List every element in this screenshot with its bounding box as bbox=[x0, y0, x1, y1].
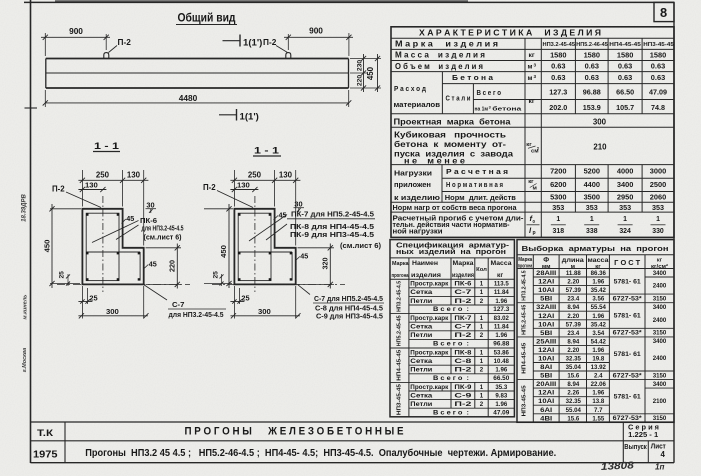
svg-text:2.20: 2.20 bbox=[567, 347, 579, 354]
svg-text:НП5.2-45-45: НП5.2-45-45 bbox=[522, 304, 528, 335]
svg-text:13808: 13808 bbox=[601, 460, 635, 473]
svg-text:353: 353 bbox=[652, 203, 664, 212]
svg-text:П-2: П-2 bbox=[454, 367, 472, 374]
dimension 25 bottom (left section) bbox=[78, 286, 97, 319]
svg-text:ных изделий на прогон: ных изделий на прогон bbox=[396, 247, 506, 256]
svg-text:1.96: 1.96 bbox=[592, 313, 604, 320]
section mark 1(1') top bbox=[223, 35, 263, 49]
svg-text:В с е г о :: В с е г о : bbox=[433, 341, 469, 348]
svg-text:М а р к а и з д е л и я: М а р к а и з д е л и я bbox=[395, 40, 498, 49]
svg-text:10АI: 10АI bbox=[538, 398, 554, 405]
rebar selection group НП3.2-45-4.5 bbox=[522, 270, 667, 303]
svg-text:П-2: П-2 bbox=[454, 298, 472, 305]
row Масса изделия bbox=[395, 51, 666, 60]
svg-text:3500: 3500 bbox=[584, 193, 600, 202]
svg-text:900: 900 bbox=[69, 26, 83, 36]
svg-text:С-7 для НП5.2-45-4.5: С-7 для НП5.2-45-4.5 bbox=[314, 296, 383, 303]
svg-text:Норм длит. действ: Норм длит. действ bbox=[445, 193, 516, 202]
svg-text:86.36: 86.36 bbox=[591, 270, 607, 277]
svg-text:32АIII: 32АIII bbox=[536, 304, 556, 311]
label П-2 left with leader bbox=[109, 37, 132, 53]
svg-text:1975: 1975 bbox=[33, 450, 58, 461]
svg-text:25: 25 bbox=[213, 271, 220, 279]
svg-text:на 1м: на 1м bbox=[475, 106, 489, 112]
row на 1м3 бетона bbox=[475, 103, 666, 113]
svg-text:3000: 3000 bbox=[650, 167, 666, 176]
svg-text:96.88: 96.88 bbox=[493, 341, 509, 348]
svg-text:для НП3.2-45-4.5: для НП3.2-45-4.5 bbox=[142, 226, 184, 233]
svg-text:74.8: 74.8 bbox=[651, 103, 665, 112]
svg-text:Р а с х о д: Р а с х о д bbox=[394, 84, 426, 93]
row Расчетный прогиб bbox=[393, 214, 666, 236]
svg-text:1.96: 1.96 bbox=[592, 347, 604, 354]
svg-text:8.94: 8.94 bbox=[567, 304, 579, 311]
svg-text:С-7: С-7 bbox=[454, 324, 472, 331]
series box Выпуск / Лист 4 bbox=[624, 444, 666, 459]
svg-text:3400: 3400 bbox=[617, 180, 633, 189]
svg-text:3.56: 3.56 bbox=[592, 296, 604, 303]
svg-text:35.04: 35.04 bbox=[566, 364, 582, 371]
svg-text:Марка: Марка bbox=[518, 257, 533, 263]
svg-text:кг: кг bbox=[595, 264, 601, 270]
rebar selection table grid bbox=[517, 240, 674, 423]
svg-text:3400: 3400 bbox=[653, 381, 667, 388]
svg-text:6727-53*: 6727-53* bbox=[613, 296, 643, 303]
svg-text:47.09: 47.09 bbox=[649, 88, 667, 97]
centerline (left section) bbox=[102, 196, 104, 292]
svg-text:Петли: Петли bbox=[410, 367, 432, 374]
svg-text:В с е г о :: В с е г о : bbox=[433, 306, 469, 313]
svg-text:г.Москва: г.Москва bbox=[22, 348, 28, 373]
svg-text:20АIII: 20АIII bbox=[536, 381, 556, 388]
svg-text:1.96: 1.96 bbox=[495, 332, 507, 339]
svg-text:С-9: С-9 bbox=[454, 392, 472, 399]
svg-text:12АI: 12АI bbox=[538, 390, 554, 397]
svg-text:25: 25 bbox=[59, 271, 66, 279]
svg-text:450: 450 bbox=[219, 245, 228, 258]
svg-text:1580: 1580 bbox=[584, 51, 600, 60]
svg-text:2060: 2060 bbox=[650, 193, 666, 202]
dimension 130 (left section) bbox=[78, 181, 106, 193]
row Норм нагр от собств веса прогона bbox=[393, 203, 665, 212]
svg-text:Х А Р А К Т Е Р И С Т И К А: Х А Р А К Т Е Р И С Т И К А И З Д Е Л И … bbox=[419, 28, 601, 37]
svg-text:Р а с ч е т н а я: Р а с ч е т н а я bbox=[446, 167, 508, 176]
svg-text:10АI: 10АI bbox=[538, 287, 554, 294]
svg-text:32.35: 32.35 bbox=[566, 356, 582, 363]
dimension 250/130 top (left section) bbox=[78, 170, 148, 246]
svg-text:Норм нагр от собств веса прого: Норм нагр от собств веса прогона bbox=[393, 203, 518, 212]
svg-text:250: 250 bbox=[96, 171, 110, 180]
svg-text:25: 25 bbox=[89, 293, 97, 302]
svg-text:П-2: П-2 bbox=[52, 184, 65, 193]
title block year 1975 bbox=[33, 450, 58, 461]
svg-text:Простр.карк: Простр.карк bbox=[410, 349, 449, 356]
title block grid bbox=[31, 422, 675, 463]
svg-text:кг: кг bbox=[528, 179, 534, 185]
svg-text:Простр.карк: Простр.карк bbox=[410, 315, 449, 322]
rebar selection table header bbox=[518, 244, 669, 270]
label ПК-7/8/9 block (right section) bbox=[249, 211, 381, 250]
svg-text:83.02: 83.02 bbox=[494, 315, 510, 322]
svg-text:Сетка: Сетка bbox=[410, 289, 433, 296]
label 45 lower (right section) bbox=[296, 251, 309, 260]
svg-text:бетона к моменту от-: бетона к моменту от- bbox=[394, 140, 506, 149]
svg-text:3: 3 bbox=[534, 74, 537, 79]
svg-text:НП3.2-45-4.5: НП3.2-45-4.5 bbox=[397, 280, 403, 312]
svg-text:1.96: 1.96 bbox=[495, 298, 507, 305]
svg-text:Расчетный прогиб с учетом дли-: Расчетный прогиб с учетом дли- bbox=[393, 214, 525, 222]
centerline (right section) bbox=[254, 196, 256, 292]
svg-text:3150: 3150 bbox=[653, 330, 667, 337]
svg-text:353: 353 bbox=[619, 203, 631, 212]
svg-text:НП5.2-45-45: НП5.2-45-45 bbox=[397, 315, 403, 347]
svg-text:1: 1 bbox=[656, 216, 660, 223]
svg-text:15.6: 15.6 bbox=[567, 415, 579, 422]
svg-text:96.88: 96.88 bbox=[583, 88, 601, 97]
svg-text:НП5.2-46-45: НП5.2-46-45 bbox=[576, 42, 608, 48]
svg-text:1580: 1580 bbox=[550, 51, 566, 60]
label 45 lower (left section) bbox=[144, 259, 157, 268]
lifting loop П-2 left bbox=[104, 53, 109, 59]
svg-text:130: 130 bbox=[85, 181, 98, 190]
rows Нагрузки приложенные к изделию bbox=[394, 167, 666, 202]
table header ХАРАКТЕРИСТИКА ИЗДЕЛИЯ bbox=[419, 28, 601, 37]
svg-text:0.63: 0.63 bbox=[551, 73, 565, 82]
svg-text:кг: кг bbox=[529, 52, 535, 59]
svg-text:НП4-45-45: НП4-45-45 bbox=[397, 349, 403, 381]
rebar selection group НП3-45-45 bbox=[522, 381, 667, 422]
svg-text:55.04: 55.04 bbox=[566, 407, 582, 414]
section 1-1 body (left) bbox=[82, 209, 143, 285]
svg-text:324: 324 bbox=[619, 228, 631, 235]
svg-text:318: 318 bbox=[553, 228, 565, 235]
svg-text:4000: 4000 bbox=[617, 167, 633, 176]
weld mark 30 (right section) bbox=[294, 199, 305, 212]
characteristics table grid bbox=[391, 27, 674, 238]
svg-text:0.63: 0.63 bbox=[651, 73, 665, 82]
svg-text:м: м bbox=[571, 264, 575, 270]
svg-text:Проектная марка бетона: Проектная марка бетона bbox=[394, 118, 512, 127]
dimension 220 (left section) bbox=[146, 244, 182, 289]
label П-2 right with leader bbox=[263, 37, 288, 53]
svg-text:Кол: Кол bbox=[476, 267, 487, 273]
svg-text:1(1'): 1(1') bbox=[243, 38, 262, 49]
svg-text:45: 45 bbox=[300, 251, 308, 260]
svg-text:НП3.2-45-45: НП3.2-45-45 bbox=[543, 42, 576, 48]
svg-text:2.20: 2.20 bbox=[567, 279, 579, 286]
svg-text:Б е т о н а: Б е т о н а bbox=[452, 73, 494, 82]
row Кубиковая прочность bbox=[394, 130, 607, 165]
svg-text:кг: кг bbox=[529, 98, 535, 105]
svg-text:220: 220 bbox=[357, 75, 364, 86]
margin note (rotated) 3 bbox=[22, 348, 28, 373]
svg-text:изделия: изделия bbox=[411, 272, 441, 279]
svg-text:1.96: 1.96 bbox=[495, 367, 507, 374]
svg-text:10.48: 10.48 bbox=[494, 358, 510, 365]
svg-text:1п: 1п bbox=[655, 463, 665, 472]
svg-text:Петли: Петли bbox=[410, 332, 432, 339]
svg-text:1(1'): 1(1') bbox=[240, 112, 259, 123]
section 1-1 heading (left) bbox=[93, 141, 120, 152]
svg-text:Сетка: Сетка bbox=[410, 392, 433, 399]
svg-text:ПК-6: ПК-6 bbox=[140, 216, 157, 225]
svg-text:5781- 61: 5781- 61 bbox=[614, 351, 641, 358]
label ПК-6 block (left section) bbox=[92, 216, 184, 243]
svg-text:НП4-45-45: НП4-45-45 bbox=[609, 42, 641, 48]
svg-text:450: 450 bbox=[366, 66, 375, 80]
dimension 300 bottom (right section) bbox=[230, 286, 300, 319]
specification table header bbox=[392, 241, 512, 279]
svg-text:ПК-7: ПК-7 bbox=[454, 315, 472, 322]
svg-text:5ВI: 5ВI bbox=[540, 330, 552, 337]
svg-text:НП4-45-45: НП4-45-45 bbox=[522, 342, 528, 374]
svg-text:1.225 - 1: 1.225 - 1 bbox=[628, 430, 658, 439]
svg-text:для НП3.2-45-4.5: для НП3.2-45-4.5 bbox=[169, 312, 224, 319]
row Проектная марка бетона bbox=[394, 118, 607, 127]
svg-text:0.63: 0.63 bbox=[585, 62, 599, 71]
svg-text:202.0: 202.0 bbox=[549, 103, 567, 112]
svg-text:320: 320 bbox=[320, 258, 329, 270]
svg-text:25АIII: 25АIII bbox=[536, 338, 556, 345]
svg-text:210: 210 bbox=[593, 143, 607, 152]
row Объём изделия bbox=[395, 62, 665, 71]
svg-text:0.63: 0.63 bbox=[551, 62, 565, 71]
svg-text:м.кинель: м.кинель bbox=[23, 295, 29, 320]
svg-text:Простр.карк: Простр.карк bbox=[410, 281, 449, 288]
svg-text:6727-53*: 6727-53* bbox=[613, 415, 643, 422]
weld mark 30 (left section) bbox=[146, 200, 157, 213]
svg-text:113.5: 113.5 bbox=[494, 281, 510, 288]
svg-text:изделия: изделия bbox=[452, 272, 474, 279]
specification group НП3.2-45-4.5 bbox=[397, 280, 510, 313]
beam outline (general view) bbox=[46, 59, 349, 89]
series box Серия 1.225-1 bbox=[628, 423, 659, 439]
dimension 130 (right section) bbox=[230, 181, 258, 193]
svg-text:45: 45 bbox=[126, 214, 134, 223]
svg-text:23.4: 23.4 bbox=[567, 330, 579, 337]
svg-text:8АI: 8АI bbox=[540, 364, 552, 371]
svg-text:1 - 1: 1 - 1 bbox=[94, 141, 120, 152]
svg-text:9.83: 9.83 bbox=[495, 392, 507, 399]
svg-text:66.50: 66.50 bbox=[616, 88, 634, 97]
label 45 upper (right section) bbox=[274, 211, 287, 221]
svg-text:12АI: 12АI bbox=[538, 347, 554, 354]
svg-text:В с е г о :: В с е г о : bbox=[433, 375, 469, 382]
svg-text:ПК-8: ПК-8 bbox=[454, 349, 472, 356]
dimension 900 (right) bbox=[284, 26, 353, 57]
svg-text:м: м bbox=[528, 63, 533, 70]
dimension 320 (right section) bbox=[298, 244, 335, 289]
bottom axis dash line (right section) bbox=[212, 283, 345, 285]
svg-text:мм: мм bbox=[542, 264, 551, 270]
row Расход материалов / Бетона bbox=[394, 73, 666, 109]
svg-text:11.88: 11.88 bbox=[566, 270, 582, 277]
svg-text:130: 130 bbox=[127, 171, 141, 180]
svg-text:6727-53*: 6727-53* bbox=[613, 372, 643, 379]
svg-text:3150: 3150 bbox=[653, 372, 667, 379]
svg-text:кг/см²: кг/см² bbox=[651, 263, 668, 270]
svg-text:С-8: С-8 bbox=[454, 358, 472, 365]
svg-text:130: 130 bbox=[279, 171, 293, 180]
svg-text:материалов: материалов bbox=[394, 100, 441, 109]
svg-text:338: 338 bbox=[586, 228, 598, 235]
svg-text:10АI: 10АI bbox=[538, 356, 554, 363]
rebar selection group НП5.2-45-45 bbox=[522, 304, 667, 337]
svg-text:28АIII: 28АIII bbox=[536, 270, 556, 277]
svg-text:2950: 2950 bbox=[617, 193, 633, 202]
svg-text:5300: 5300 bbox=[550, 193, 566, 202]
section 1-1 body (right) bbox=[234, 209, 295, 285]
specification group НП3-45-45 bbox=[397, 383, 510, 416]
label П-2 (right section) with leader bbox=[203, 183, 253, 208]
dimension 25 bottom (right section) bbox=[230, 286, 249, 319]
svg-text:1 - 1: 1 - 1 bbox=[254, 146, 280, 157]
title block stamp Т.К bbox=[37, 428, 54, 438]
svg-text:1580: 1580 bbox=[650, 51, 666, 60]
svg-text:57.39: 57.39 bbox=[566, 321, 582, 328]
svg-text:127.3: 127.3 bbox=[549, 88, 567, 97]
svg-text:м: м bbox=[528, 75, 533, 82]
svg-text:0.63: 0.63 bbox=[651, 62, 665, 71]
svg-text:5200: 5200 bbox=[584, 167, 600, 176]
svg-text:7200: 7200 bbox=[550, 167, 566, 176]
svg-text:1.96: 1.96 bbox=[592, 390, 604, 397]
margin note (rotated) 1 bbox=[22, 193, 28, 221]
lifting loop П-2 right bbox=[286, 53, 291, 59]
svg-text:47.09: 47.09 bbox=[493, 409, 509, 416]
row Стали Всего bbox=[446, 88, 668, 105]
svg-text:прогона: прогона bbox=[392, 273, 410, 279]
svg-text:220: 220 bbox=[167, 260, 176, 272]
svg-text:ПК-9: ПК-9 bbox=[454, 384, 472, 391]
svg-text:С-7: С-7 bbox=[454, 289, 472, 296]
svg-text:2.26: 2.26 bbox=[567, 390, 579, 397]
svg-text:2100: 2100 bbox=[653, 398, 667, 405]
handwritten 13808 bbox=[601, 460, 635, 473]
svg-text:к изделию: к изделию bbox=[394, 193, 440, 202]
svg-text:Масса: Масса bbox=[491, 260, 512, 267]
svg-text:Прогоны НП3.2 45 4.5 ; НП5.: Прогоны НП3.2 45 4.5 ; НП5.2-46-4.5 ; НП… bbox=[85, 448, 556, 459]
sheet number box "8" bbox=[654, 2, 674, 21]
svg-text:ПК-9 для НП3-45-4.5: ПК-9 для НП3-45-4.5 bbox=[290, 232, 374, 239]
svg-text:8: 8 bbox=[660, 5, 667, 20]
dimension 300 bottom (left section) bbox=[78, 286, 148, 319]
svg-text:19.8: 19.8 bbox=[592, 356, 604, 363]
svg-text:н е м е н е е: н е м е н е е bbox=[404, 156, 466, 165]
svg-text:С-7: С-7 bbox=[172, 300, 184, 309]
svg-text:Выпуск: Выпуск bbox=[624, 444, 647, 451]
svg-text:6200: 6200 bbox=[550, 180, 566, 189]
svg-text:11.84: 11.84 bbox=[494, 289, 510, 296]
dimension 25 left-of-bottom (right section) bbox=[213, 271, 224, 286]
label П-2 (left section) with leader bbox=[52, 184, 101, 207]
svg-text:3400: 3400 bbox=[653, 270, 667, 277]
specification table grid bbox=[390, 240, 514, 417]
svg-text:С-9 для НП3-45-4.5: С-9 для НП3-45-4.5 bbox=[316, 313, 383, 320]
svg-text:54.42: 54.42 bbox=[591, 338, 607, 345]
svg-text:3400: 3400 bbox=[653, 338, 667, 345]
svg-text:7.7: 7.7 bbox=[594, 407, 603, 414]
svg-text:900: 900 bbox=[309, 26, 323, 36]
svg-text:П Р О Г О Н Ы Ж Е Л Е З О: П Р О Г О Н Ы Ж Е Л Е З О Б Е Т О Н Н Ы … bbox=[185, 426, 404, 438]
svg-text:4ВI: 4ВI bbox=[540, 415, 552, 422]
svg-text:55.54: 55.54 bbox=[591, 304, 607, 311]
svg-text:П-2: П-2 bbox=[454, 332, 472, 339]
title row Прогоны НП3.2-45-4.5 ... bbox=[85, 448, 556, 459]
svg-text:3400: 3400 bbox=[653, 304, 667, 311]
svg-text:35.3: 35.3 bbox=[495, 384, 507, 391]
svg-text:Марка: Марка bbox=[453, 260, 474, 267]
svg-text:Простр.карк: Простр.карк bbox=[410, 384, 449, 391]
svg-text:м: м bbox=[533, 186, 537, 192]
svg-text:Г О С Т: Г О С Т bbox=[614, 258, 641, 267]
dimension 4480 bbox=[43, 90, 352, 107]
svg-text:3.54: 3.54 bbox=[592, 330, 604, 337]
rebar selection group НП4-45-45 bbox=[522, 338, 667, 379]
svg-text:НП3-45-45: НП3-45-45 bbox=[522, 385, 528, 417]
svg-text:230: 230 bbox=[357, 60, 364, 71]
svg-text:30: 30 bbox=[146, 200, 154, 209]
svg-text:2400: 2400 bbox=[653, 317, 667, 324]
svg-text:23.4: 23.4 bbox=[567, 296, 579, 303]
label С-7/С-8/С-9 block (right section) bbox=[298, 285, 384, 321]
svg-text:Т.К: Т.К bbox=[37, 428, 54, 438]
svg-text:35.42: 35.42 bbox=[591, 321, 607, 328]
svg-text:18.39ДРВ: 18.39ДРВ bbox=[22, 193, 28, 221]
svg-text:105.7: 105.7 bbox=[616, 103, 634, 112]
label 45 upper (left section) bbox=[122, 214, 135, 224]
svg-text:2500: 2500 bbox=[650, 180, 666, 189]
svg-text:300: 300 bbox=[106, 307, 119, 316]
svg-text:25: 25 bbox=[241, 293, 249, 302]
svg-text:кг: кг bbox=[497, 272, 503, 279]
specification group НП5.2-45-45 bbox=[397, 315, 510, 348]
svg-text:5781- 61: 5781- 61 bbox=[614, 313, 641, 320]
svg-text:2.4: 2.4 bbox=[594, 373, 603, 380]
svg-text:300: 300 bbox=[258, 307, 271, 316]
svg-text:3: 3 bbox=[534, 62, 537, 67]
title row ПРОГОНЫ ЖЕЛЕЗОБЕТОННЫЕ bbox=[185, 426, 404, 438]
svg-text:4480: 4480 bbox=[179, 93, 198, 103]
svg-text:р: р bbox=[533, 230, 536, 236]
specification group НП4-45-45 bbox=[397, 349, 510, 382]
svg-text:0.63: 0.63 bbox=[585, 73, 599, 82]
svg-text:1580: 1580 bbox=[617, 51, 633, 60]
svg-text:(см.лист 6): (см.лист 6) bbox=[144, 235, 182, 242]
svg-text:В с е г о: В с е г о bbox=[477, 88, 502, 97]
svg-text:НП3.2-45-4.5: НП3.2-45-4.5 bbox=[522, 270, 528, 301]
svg-text:0.63: 0.63 bbox=[618, 73, 632, 82]
svg-text:12АI: 12АI bbox=[538, 279, 554, 286]
svg-text:3150: 3150 bbox=[653, 415, 667, 422]
svg-text:32.35: 32.35 bbox=[566, 398, 582, 405]
dimension 250/130 top (right section) bbox=[230, 170, 300, 246]
margin note (rotated) 2 bbox=[23, 295, 29, 320]
svg-text:П-2: П-2 bbox=[263, 37, 277, 47]
dimension 450 (right section) bbox=[204, 204, 233, 288]
svg-text:250: 250 bbox=[248, 171, 262, 180]
svg-text:Марка: Марка bbox=[392, 261, 409, 267]
svg-text:П-2: П-2 bbox=[203, 183, 216, 192]
svg-text:30: 30 bbox=[294, 199, 302, 208]
svg-text:1.96: 1.96 bbox=[592, 279, 604, 286]
svg-text:1: 1 bbox=[623, 216, 627, 223]
svg-text:353: 353 bbox=[552, 203, 564, 212]
svg-text:5ВI: 5ВI bbox=[540, 296, 552, 303]
svg-text:300: 300 bbox=[593, 118, 607, 127]
svg-text:353: 353 bbox=[586, 203, 598, 212]
svg-text:1.96: 1.96 bbox=[495, 401, 507, 408]
